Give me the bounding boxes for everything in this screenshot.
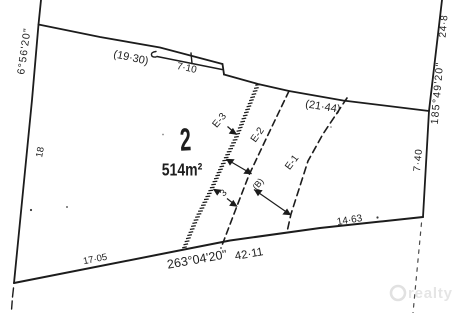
svg-text:514m²: 514m² xyxy=(162,160,203,180)
svg-text:realty: realty xyxy=(408,285,453,302)
svg-text:2: 2 xyxy=(179,121,192,158)
svg-text:18: 18 xyxy=(34,146,47,158)
svg-text:24·8: 24·8 xyxy=(438,14,451,38)
svg-text:7·40: 7·40 xyxy=(412,148,425,172)
